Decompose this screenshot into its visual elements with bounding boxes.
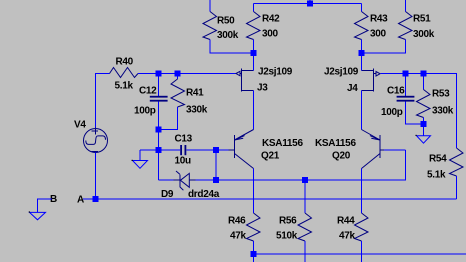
JFET J3: [236, 67, 293, 94]
svg-text:J4: J4: [347, 83, 358, 94]
wire J3 drain: [253, 53, 255, 71]
svg-text:47k: 47k: [230, 231, 247, 242]
node junction C13 left: [156, 147, 162, 153]
ground at B: [29, 211, 46, 219]
wire Q20 collector down: [361, 169, 363, 214]
svg-text:R54: R54: [429, 154, 447, 165]
svg-text:A: A: [77, 195, 84, 206]
svg-text:D9: D9: [161, 189, 174, 200]
wire B: [38, 199, 53, 212]
node B label: [50, 194, 57, 205]
svg-text:J3: J3: [257, 83, 268, 94]
resistor R44: [337, 213, 368, 262]
svg-text:C13: C13: [175, 134, 193, 145]
wire A rail: [83, 198, 457, 200]
svg-text:330k: 330k: [432, 106, 454, 117]
node junction C16 top: [403, 71, 409, 77]
resistor R53: [417, 74, 454, 125]
wire mid rail y180: [216, 150, 406, 180]
node junction R56 top: [302, 177, 308, 183]
svg-text:J2sj109: J2sj109: [324, 67, 359, 78]
svg-text:300k: 300k: [413, 29, 435, 40]
diode D9: [159, 171, 220, 200]
svg-text:drd24a: drd24a: [188, 189, 220, 200]
wire V4 to R40: [96, 74, 110, 129]
voltage source V4: [74, 120, 108, 153]
resistor R54: [427, 148, 463, 199]
svg-text:47k: 47k: [339, 231, 356, 242]
svg-text:100p: 100p: [134, 106, 156, 117]
resistor R41: [159, 74, 208, 130]
svg-text:V4: V4: [74, 120, 86, 131]
svg-text:100p: 100p: [381, 107, 403, 118]
wire J4 gate to R54: [381, 74, 457, 149]
svg-text:R40: R40: [116, 57, 134, 68]
resistor R42: [247, 4, 281, 54]
node junction R41 top: [175, 71, 181, 77]
svg-text:KSA1156: KSA1156: [262, 138, 303, 149]
svg-text:330k: 330k: [186, 105, 208, 116]
node junction R43 bottom: [359, 50, 365, 56]
wire bottom rail: [254, 253, 466, 255]
node junction V4 bottom: [93, 196, 99, 202]
node junction R42 bottom: [251, 50, 257, 56]
transistor Q21: [216, 130, 303, 169]
svg-text:J2sj109: J2sj109: [258, 67, 293, 78]
svg-text:Q20: Q20: [332, 151, 351, 162]
resistor R50: [203, 0, 254, 53]
svg-text:10u: 10u: [175, 156, 192, 167]
resistor R46: [228, 213, 260, 262]
svg-text:5.1k: 5.1k: [427, 170, 446, 181]
svg-text:R43: R43: [370, 14, 388, 25]
wire R56 top: [304, 180, 306, 213]
wire top rail: [254, 0, 362, 4]
resistor R56: [276, 213, 312, 262]
svg-text:Q21: Q21: [261, 151, 280, 162]
capacitor C13: [159, 134, 217, 167]
wire Q21 collector down: [253, 169, 255, 214]
svg-text:KSA1156: KSA1156: [315, 138, 356, 149]
svg-text:300: 300: [370, 29, 387, 40]
svg-text:R41: R41: [186, 88, 204, 99]
transistor Q20: [315, 130, 406, 169]
wire C13 to D9 right vertical: [215, 150, 217, 180]
node junction C12 top: [156, 71, 162, 77]
node junction R53 bottom: [421, 121, 427, 127]
svg-text:510k: 510k: [276, 231, 298, 242]
node junction C13 right: [213, 147, 219, 153]
svg-text:C16: C16: [387, 86, 405, 97]
capacitor C16: [381, 74, 424, 125]
ground at R53: [416, 124, 431, 143]
node junction R46 bottom: [251, 251, 257, 257]
node junction C12 bottom: [156, 127, 162, 133]
svg-text:R51: R51: [413, 14, 431, 25]
ground at C13: [132, 150, 159, 168]
node A label: [77, 195, 84, 206]
svg-text:R42: R42: [262, 14, 280, 25]
wire V4 bottom: [95, 153, 97, 200]
wire J4 drain: [361, 53, 363, 71]
wire R40 to J3 gate: [138, 73, 236, 75]
wire C12 block left vertical: [158, 130, 160, 181]
node junction R53 top: [421, 71, 427, 77]
svg-text:R46: R46: [228, 216, 246, 227]
resistor R43: [355, 4, 389, 54]
svg-text:R44: R44: [337, 216, 355, 227]
JFET J4: [324, 67, 380, 95]
node junction D9 right: [213, 177, 219, 183]
svg-text:R53: R53: [432, 89, 450, 100]
svg-text:R50: R50: [217, 16, 235, 27]
resistor R40: [110, 57, 139, 92]
svg-text:5.1k: 5.1k: [115, 81, 134, 92]
svg-text:R56: R56: [279, 216, 297, 227]
svg-text:300k: 300k: [217, 30, 239, 41]
capacitor C12: [134, 74, 168, 130]
wire J4 source: [361, 91, 363, 130]
node junction top rail: [307, 1, 313, 7]
svg-text:C12: C12: [139, 86, 157, 97]
svg-text:300: 300: [262, 29, 279, 40]
wire J3 source: [253, 91, 255, 130]
resistor R51: [362, 0, 435, 53]
